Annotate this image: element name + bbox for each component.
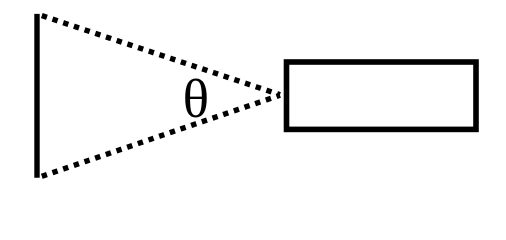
object line (vertical segment at left) (34, 14, 39, 178)
rectangle (eye/camera box) (287, 62, 477, 129)
wire: upper dotted ray from top of object to apex (42, 16, 280, 95)
svg-text:θ: θ (183, 68, 209, 129)
wire: lower dotted ray from bottom of object to apex (42, 95, 280, 176)
